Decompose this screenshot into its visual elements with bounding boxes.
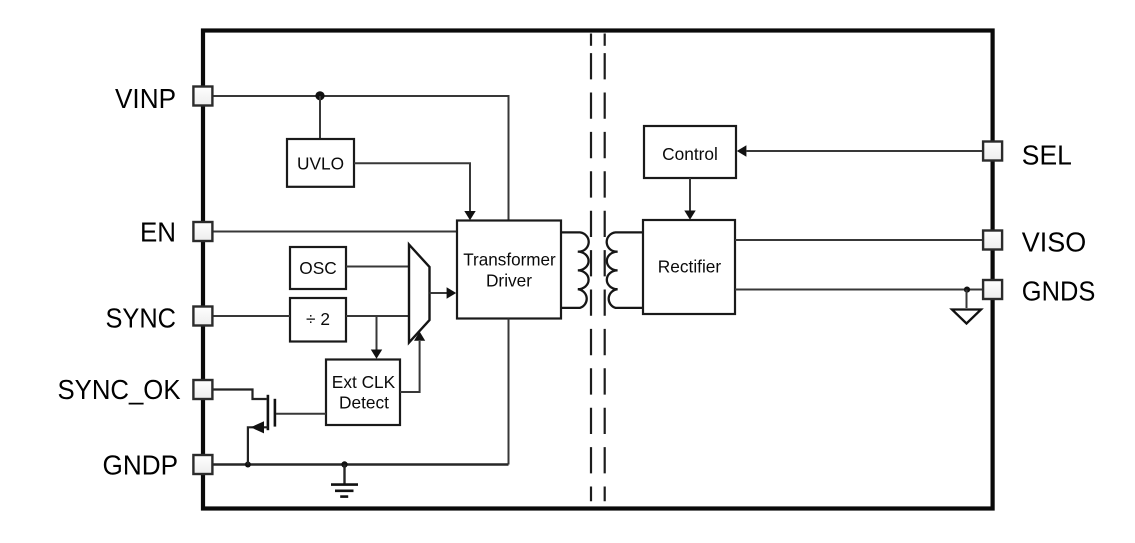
- Control box: [644, 126, 736, 178]
- svg-text:Transformer: Transformer: [463, 249, 556, 269]
- node GNDS junction: [964, 287, 970, 293]
- transistor Q1 drain wire from SYNC_OK: [212, 390, 267, 400]
- svg-text:Driver: Driver: [486, 270, 532, 290]
- svg-text:UVLO: UVLO: [297, 154, 344, 174]
- svg-text:Control: Control: [662, 144, 718, 164]
- wire Control to Rectifier (arrow): [684, 178, 695, 220]
- wire VINP to Transformer Driver top: [212, 96, 509, 220]
- pin SYNC: [193, 307, 212, 326]
- svg-text:SYNC_OK: SYNC_OK: [58, 374, 182, 405]
- svg-text:÷ 2: ÷ 2: [306, 309, 330, 329]
- Transformer Driver box: [457, 221, 561, 319]
- wire VISO: [735, 239, 983, 241]
- transistor Q1 gate bar: [274, 399, 277, 427]
- wire divider to mux: [346, 315, 409, 317]
- svg-text:EN: EN: [140, 216, 176, 247]
- transformer primary winding: [561, 232, 589, 308]
- wire EN to Transformer Driver: [212, 231, 458, 233]
- wire GNDP: [212, 463, 509, 465]
- svg-text:GNDP: GNDP: [103, 449, 179, 480]
- node MOSFET source junction: [245, 462, 251, 468]
- svg-text:Detect: Detect: [339, 393, 389, 413]
- wire Ext CLK Detect output to mux select (arrow): [400, 332, 425, 393]
- wire GNDS: [735, 289, 983, 291]
- wire mux output to Transformer Driver (arrow): [430, 287, 457, 298]
- pin GNDP: [193, 455, 212, 474]
- transistor Q1 source wire to GNDP: [248, 427, 268, 464]
- svg-text:VISO: VISO: [1022, 226, 1087, 257]
- svg-text:OSC: OSC: [299, 258, 336, 278]
- transistor Q1 channel bar: [267, 395, 270, 430]
- wire SEL to Control (arrow): [737, 145, 983, 156]
- chip outline: [203, 31, 993, 509]
- pin EN: [193, 222, 212, 241]
- wire Transformer Driver bottom to GNDP net: [508, 319, 510, 465]
- node VINP junction: [315, 91, 324, 100]
- ground symbol GNDP: [331, 465, 358, 497]
- wire SYNC to divider: [212, 315, 291, 317]
- transistor Q1 source arrow: [251, 421, 264, 433]
- svg-text:Rectifier: Rectifier: [658, 257, 722, 277]
- UVLO box U1: [287, 139, 354, 187]
- wire UVLO output to Transformer Driver (arrow): [354, 163, 476, 220]
- wire branch to Ext CLK Detect (arrow): [371, 316, 382, 359]
- pin GNDS: [983, 280, 1002, 299]
- pin SEL: [983, 142, 1002, 161]
- pin SYNC_OK: [193, 380, 212, 399]
- isolation barrier dashed line right: [604, 34, 606, 502]
- svg-text:GNDS: GNDS: [1022, 275, 1096, 306]
- pin VINP: [193, 87, 212, 106]
- Ext CLK Detect box: [326, 360, 400, 426]
- divider box ÷2: [290, 298, 346, 342]
- pin VISO: [983, 231, 1002, 250]
- OSC box: [290, 247, 346, 289]
- svg-text:SYNC: SYNC: [106, 303, 177, 334]
- wire OSC to mux: [346, 266, 409, 268]
- Rectifier box: [643, 220, 735, 314]
- wire gate to Ext CLK Detect: [276, 413, 326, 415]
- mux (clock select): [409, 245, 430, 343]
- wire VINP junction to UVLO: [319, 96, 321, 139]
- node ground junction: [341, 461, 347, 467]
- ground symbol GNDS (isolated): [952, 310, 981, 324]
- transformer secondary winding: [607, 232, 643, 308]
- svg-text:VINP: VINP: [115, 83, 176, 114]
- isolation barrier dashed line left: [590, 34, 592, 502]
- svg-text:SEL: SEL: [1022, 140, 1072, 171]
- svg-text:Ext CLK: Ext CLK: [332, 372, 396, 392]
- wire GNDS junction to iso ground: [966, 290, 968, 309]
